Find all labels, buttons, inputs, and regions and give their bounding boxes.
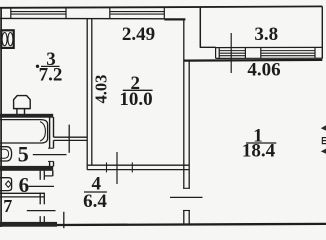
svg-text:3.8: 3.8 xyxy=(254,24,278,45)
svg-text:7: 7 xyxy=(3,196,12,216)
svg-text:18.4: 18.4 xyxy=(242,141,276,162)
svg-text:4.06: 4.06 xyxy=(247,59,280,80)
svg-text:5: 5 xyxy=(18,142,29,167)
svg-text:2.49: 2.49 xyxy=(122,24,155,45)
svg-text:7.2: 7.2 xyxy=(39,65,63,86)
svg-text:6.4: 6.4 xyxy=(83,191,107,212)
svg-text:10.0: 10.0 xyxy=(119,89,152,110)
svg-text:6: 6 xyxy=(19,173,30,197)
svg-text:4.03: 4.03 xyxy=(92,75,111,104)
